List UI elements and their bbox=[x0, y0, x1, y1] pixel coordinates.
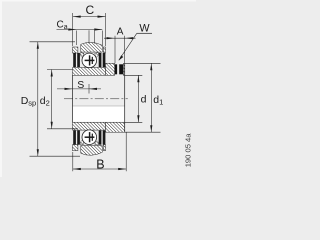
svg-text:A: A bbox=[117, 27, 124, 38]
svg-text:W: W bbox=[139, 22, 150, 34]
svg-text:C: C bbox=[86, 3, 95, 17]
svg-text:190 05 4a: 190 05 4a bbox=[183, 133, 192, 168]
svg-text:B: B bbox=[96, 158, 104, 172]
svg-text:S: S bbox=[77, 79, 84, 91]
svg-text:d: d bbox=[141, 94, 147, 106]
